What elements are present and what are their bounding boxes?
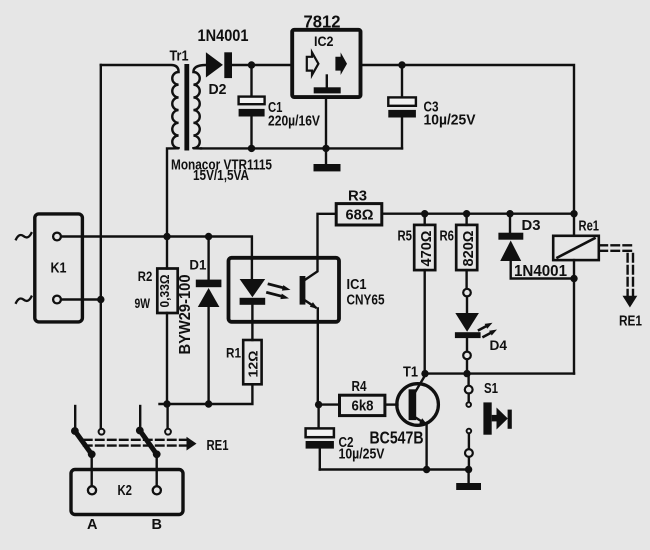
bottom rail R2/D1/R1 xyxy=(160,384,253,404)
svg-text:6k8: 6k8 xyxy=(352,398,374,414)
svg-text:68Ω: 68Ω xyxy=(346,208,374,224)
K2 terminal A xyxy=(88,486,96,494)
switch S1 chain xyxy=(465,374,473,470)
node junction D4/S1 xyxy=(463,370,470,377)
capacitor C2 xyxy=(306,405,334,470)
D4 chain top circle xyxy=(463,289,471,297)
svg-text:D3: D3 xyxy=(522,218,541,234)
node junction IC2 gnd xyxy=(322,145,329,152)
svg-text:15V/1,5VA: 15V/1,5VA xyxy=(193,168,249,184)
resistor R5 xyxy=(414,214,435,374)
transistor T1 BC547B xyxy=(397,374,439,470)
collector rail T1/D4/Re1 xyxy=(425,372,574,374)
wire D2 cathode to IC2 input xyxy=(232,64,292,66)
node junction D3 xyxy=(506,210,513,217)
D4 light arrow 2 xyxy=(484,333,492,337)
svg-text:RE1: RE1 xyxy=(619,313,642,330)
node junction K1 bottom / primary wire xyxy=(97,296,104,303)
IC1 phototransistor emitter with arrow xyxy=(305,300,316,307)
diode D3 1N4001 xyxy=(498,214,574,279)
svg-text:A: A xyxy=(87,517,98,533)
emitter ground rail xyxy=(320,468,469,470)
svg-text:T1: T1 xyxy=(403,364,418,380)
resistor R1 xyxy=(243,305,261,385)
relay actuation dashed link right xyxy=(600,245,635,295)
wire IC2 output to right rail corner xyxy=(361,65,575,214)
svg-text:D1: D1 xyxy=(189,257,206,273)
svg-text:B: B xyxy=(152,517,162,533)
relay contact right pole stub xyxy=(139,406,141,429)
svg-text:R6: R6 xyxy=(440,229,455,245)
optocoupler IC1 box xyxy=(229,258,340,322)
IC2 input arrow (hollow) xyxy=(307,52,319,75)
svg-text:10µ/25V: 10µ/25V xyxy=(339,447,385,463)
wire D4 circle to collector rail xyxy=(466,359,468,373)
capacitor C3 xyxy=(388,65,416,148)
node junction Re1/D3 xyxy=(570,275,577,282)
svg-text:R5: R5 xyxy=(398,229,413,245)
node junction C1 bottom xyxy=(248,145,255,152)
IC2 7812 regulator box xyxy=(292,30,360,97)
D4 chain bottom circle xyxy=(463,352,471,360)
svg-text:7812: 7812 xyxy=(304,12,341,32)
node junction D1 top xyxy=(205,233,212,240)
svg-text:R1: R1 xyxy=(226,345,241,361)
wire IC2 ground pin down xyxy=(325,97,327,148)
node junction R5/T1 collector xyxy=(421,370,428,377)
relay actuation dashed link left xyxy=(84,440,186,446)
svg-text:9W: 9W xyxy=(135,295,151,311)
svg-text:IC1: IC1 xyxy=(347,277,367,293)
svg-text:K2: K2 xyxy=(118,483,133,499)
LED D4 xyxy=(455,297,481,352)
node junction Re1 top xyxy=(570,210,577,217)
svg-text:Tr1: Tr1 xyxy=(170,49,189,65)
svg-text:470Ω: 470Ω xyxy=(419,230,435,266)
resistor R3 xyxy=(305,204,382,280)
K2 terminal B xyxy=(153,486,161,494)
K1 terminal top xyxy=(53,233,61,241)
arrow head RE1 down xyxy=(623,296,638,308)
D4 light arrow 1 xyxy=(479,326,487,330)
svg-text:R3: R3 xyxy=(348,189,367,205)
wire K1 top pin rail to IC1 anode xyxy=(63,237,252,260)
resistor R2 xyxy=(157,237,177,405)
svg-text:Re1: Re1 xyxy=(579,219,600,235)
node junction S1 bottom xyxy=(465,466,472,473)
svg-text:IC2: IC2 xyxy=(314,33,334,49)
svg-text:220µ/16V: 220µ/16V xyxy=(268,114,320,130)
relay contact left pole stub xyxy=(74,406,76,430)
node junction D2/C1/IC2 xyxy=(248,61,255,68)
S1 pushbutton symbol xyxy=(483,402,511,434)
svg-text:820Ω: 820Ω xyxy=(461,230,477,266)
IC2 internal ground bar xyxy=(326,76,328,88)
svg-text:12Ω: 12Ω xyxy=(246,351,261,378)
svg-text:1N4001: 1N4001 xyxy=(198,26,249,45)
svg-text:BC547B: BC547B xyxy=(370,428,424,448)
node junction IC1 emitter/R4/C2 xyxy=(315,401,322,408)
node junction primary/R2 xyxy=(163,233,170,240)
node junction T1 emitter xyxy=(423,466,430,473)
K1 terminal bottom xyxy=(53,296,61,304)
wire primary-top to left vertical down to switch contact xyxy=(100,65,102,428)
IC1 light arrow 2 xyxy=(268,293,283,297)
capacitor C1 xyxy=(239,65,265,148)
IC1 LED cathode bar xyxy=(240,298,266,305)
svg-text:RE1: RE1 xyxy=(207,438,229,454)
diode D1 BYW29-100 xyxy=(196,237,222,405)
IC1 LED anode lead xyxy=(251,258,253,279)
wire rail down to right switch contact xyxy=(166,404,168,428)
IC1 phototransistor bar xyxy=(300,276,306,305)
IC1 light arrow 1 xyxy=(269,284,284,288)
wire IC1 emitter down to R4 node xyxy=(317,309,319,405)
ground symbol bottom xyxy=(467,470,469,484)
wire left lever to K2 A xyxy=(90,454,92,484)
node junction R5 xyxy=(421,210,428,217)
svg-text:10µ/25V: 10µ/25V xyxy=(424,113,476,129)
relay contact right lever xyxy=(136,427,161,459)
AC tilde top xyxy=(16,233,31,239)
resistor R6 xyxy=(456,214,477,288)
transformer Tr1 secondary winding xyxy=(193,65,206,148)
svg-text:S1: S1 xyxy=(484,381,498,397)
resistor R4 xyxy=(319,395,398,415)
wire right lever to K2 B xyxy=(155,454,157,484)
wire K1 bottom pin xyxy=(63,298,101,300)
svg-text:CNY65: CNY65 xyxy=(347,293,385,309)
svg-text:R4: R4 xyxy=(352,379,367,395)
transformer Tr1 primary winding xyxy=(101,65,179,237)
node junction R6 xyxy=(463,210,470,217)
IC2 output arrow (solid) xyxy=(335,52,347,75)
ground symbol below IC2 xyxy=(325,148,327,164)
relay contact right fixed circle xyxy=(165,429,171,435)
svg-text:D4: D4 xyxy=(490,337,508,353)
svg-text:0,33Ω: 0,33Ω xyxy=(157,275,172,308)
node junction R2 bottom xyxy=(163,400,170,407)
svg-text:1N4001: 1N4001 xyxy=(514,263,567,280)
diode D2 1N4001 xyxy=(206,52,232,78)
node junction D1 bottom xyxy=(205,400,212,407)
IC1 LED triangle xyxy=(240,279,266,297)
relay contact left fixed circle xyxy=(99,429,105,435)
svg-text:D2: D2 xyxy=(209,82,227,98)
wire secondary ground rail xyxy=(201,147,402,149)
+12V rail from R3 to relay xyxy=(382,212,574,214)
AC tilde bottom xyxy=(16,297,31,303)
node junction C3 top xyxy=(398,61,405,68)
svg-text:K1: K1 xyxy=(51,261,67,277)
transformer Tr1 core xyxy=(184,64,189,151)
connector K2 box xyxy=(71,470,183,515)
arrow head RE1 left (points right) xyxy=(187,437,197,451)
svg-text:BYW29-100: BYW29-100 xyxy=(177,275,194,355)
svg-text:R2: R2 xyxy=(138,268,153,284)
connector K1 box xyxy=(35,214,83,322)
relay coil Re1 xyxy=(553,214,599,374)
relay contact left lever xyxy=(71,427,96,458)
